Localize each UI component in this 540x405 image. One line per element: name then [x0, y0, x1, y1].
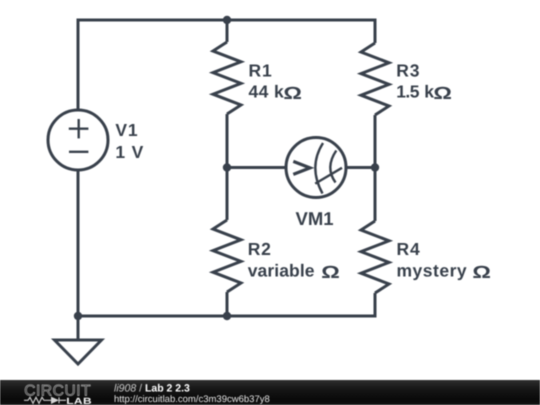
svg-text:Ω: Ω	[433, 83, 452, 103]
svg-text:R2: R2	[248, 239, 272, 259]
svg-text:R1: R1	[249, 61, 273, 81]
svg-text:R3: R3	[396, 60, 420, 80]
svg-text:R4: R4	[397, 239, 421, 259]
svg-text:VM1: VM1	[296, 208, 334, 229]
svg-text:44 k: 44 k	[249, 82, 285, 102]
svg-text:1.5: 1.5	[396, 82, 419, 102]
svg-text:Ω: Ω	[283, 83, 302, 103]
svg-text:V1: V1	[115, 120, 138, 140]
svg-text:http://circuitlab.com/c3m39cw6: http://circuitlab.com/c3m39cw6b37y8	[114, 394, 270, 405]
svg-text:Ω: Ω	[472, 262, 491, 282]
svg-text:Ω: Ω	[321, 262, 340, 282]
svg-text:mystery: mystery	[397, 261, 468, 281]
svg-text:variable: variable	[248, 261, 315, 281]
svg-text:LAB: LAB	[66, 396, 92, 405]
svg-text:li908 / Lab 2 2.3: li908 / Lab 2 2.3	[114, 383, 190, 395]
svg-text:1 V: 1 V	[115, 142, 144, 162]
